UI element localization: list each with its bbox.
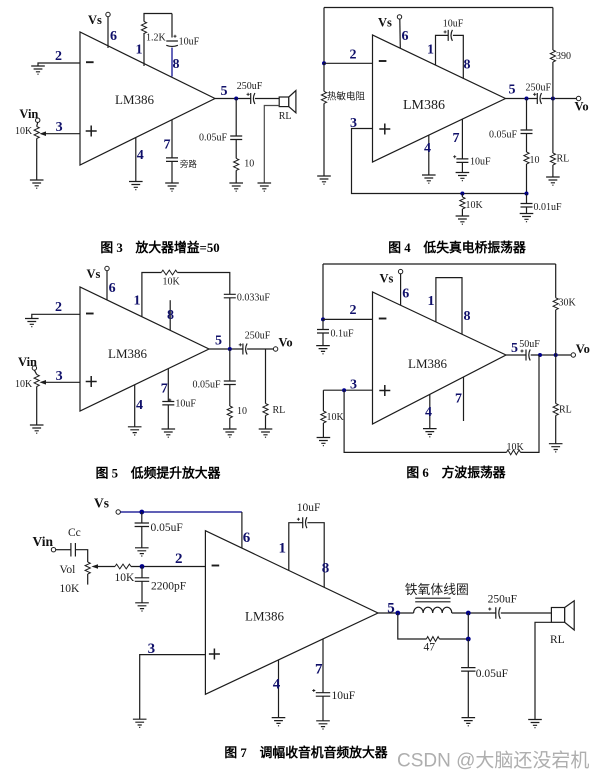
node Vin terminal [36,118,40,122]
wire 0.05uF to ground [141,527,143,548]
svg-text:6: 6 [243,530,251,546]
wire 0.1uF to ground [322,333,324,346]
svg-text:1: 1 [427,43,434,58]
svg-text:4: 4 [136,398,143,413]
resistor RL [263,404,268,416]
wire Vo node to RL [555,355,557,404]
capacitor 10uF pin1-pin8 [444,30,453,41]
svg-text:0.05uF: 0.05uF [476,668,508,680]
wire pin1 top [144,14,172,67]
op-amp U2 LM386 [373,35,506,162]
op-amp U5 non-inverting marker + [209,649,220,660]
wire left rail to thermistor [323,63,325,91]
op-amp U4 inverting marker - [379,318,387,320]
wire pin1 [142,273,161,317]
wire 0.05uF branch [467,639,469,668]
wire left 10K branch [322,390,324,411]
svg-text:0.01uF: 0.01uF [534,202,563,213]
svg-text:0.05uF: 0.05uF [489,130,518,141]
node 10K junction [460,192,464,196]
svg-text:250uF: 250uF [526,83,552,94]
svg-text:10: 10 [237,406,247,417]
svg-text:0.033uF: 0.033uF [237,293,271,304]
svg-text:1: 1 [134,294,141,309]
wire cap to 10 [229,385,231,407]
capacitor 0.05uF decoupling [135,523,149,527]
node Vs terminal [398,269,402,273]
wire 10K to pin2 [131,566,205,568]
potentiometer Vol 10K [85,562,90,574]
op-amp U4 non-inverting marker + [379,385,390,396]
ground (pot) [30,425,44,433]
wire 0.01uF branch [526,194,528,204]
capacitor 0.01uF [521,204,533,208]
svg-text:7: 7 [161,382,168,397]
wire pin1 [436,35,449,65]
capacitor 2200pF [135,578,149,582]
wire 2200pF to ground [141,581,143,603]
wire cap to ground [167,405,169,429]
svg-text:Vs: Vs [88,13,102,27]
capacitor 0.033uF [224,294,236,298]
svg-text:Vs: Vs [87,267,101,281]
svg-text:3: 3 [56,369,63,384]
node output junction [228,347,232,351]
ground (RL) [549,444,563,452]
ground (pin 7) [165,183,179,191]
node output junction [234,97,238,101]
node coil right junction [466,611,471,616]
wire pin4 [428,135,430,175]
wire pin7 [167,369,169,402]
svg-text:Vo: Vo [575,100,589,114]
wire RL to ground [555,416,557,444]
resistor 10K [321,411,326,423]
svg-text:30K: 30K [559,298,577,309]
node Vin terminal [51,548,55,552]
capacitor 50uF output [521,350,531,361]
node Vo terminal [273,347,277,351]
node pin2 junction [321,317,325,321]
resistor 10 [227,406,232,418]
ground (thermistor) [317,176,331,184]
ground (pot) [30,180,44,188]
inductor ferrite coil 铁氧体线圈 [414,607,452,613]
ground (2200pF) [135,603,149,611]
wire to 0.1uF [322,319,324,329]
svg-text:4: 4 [424,141,431,156]
node output junction [525,97,529,101]
svg-text:10K: 10K [466,200,484,211]
node Vo terminal [576,96,580,100]
svg-text:CSDN @大脑还没宕机: CSDN @大脑还没宕机 [397,750,589,772]
svg-text:图 7 调幅收音机音频放大器: 图 7 调幅收音机音频放大器 [224,745,387,760]
svg-text:10uF: 10uF [175,399,196,410]
wire 10 to bottom node [526,164,528,194]
capacitor 10uF pin1-pin8 [297,517,307,528]
svg-text:LM386: LM386 [245,609,285,624]
svg-text:0.05uF: 0.05uF [199,133,228,144]
wire speaker return [264,106,279,184]
svg-text:图 4 低失真电桥振荡器: 图 4 低失真电桥振荡器 [388,240,526,255]
inductor core bars [415,598,450,602]
svg-text:Vo: Vo [576,342,590,356]
wire cap to speaker [255,98,279,100]
svg-text:图 6 方波振荡器: 图 6 方波振荡器 [406,465,505,480]
svg-text:10uF: 10uF [297,502,321,514]
svg-text:47: 47 [424,642,436,654]
svg-text:0.1uF: 0.1uF [331,329,355,340]
svg-text:Vol: Vol [60,564,76,576]
wire pin6 [106,271,108,300]
svg-text:8: 8 [464,58,471,73]
wire 0.033uF to output node [229,298,231,349]
node Vs terminal [397,15,401,19]
capacitor 10uF pin7 [162,399,174,405]
wire output node to RL [552,99,554,154]
svg-text:图 3 放大器增益=50: 图 3 放大器增益=50 [100,240,219,255]
wire pin4 [429,394,431,428]
ground (pin 3) [133,719,147,727]
ground (speaker) [528,720,542,728]
svg-text:Vs: Vs [94,496,109,511]
wire thermistor to ground [323,103,325,176]
svg-text:4: 4 [425,405,432,420]
wire pin8 [307,523,324,588]
op-amp U1 inverting input marker - [86,61,94,63]
capacitor 250uF output coupling [247,93,255,104]
pin 8 stub [169,300,171,330]
resistor RL load [550,153,555,165]
svg-text:10uF: 10uF [443,19,464,30]
resistor 47 [426,637,439,642]
ground (pin 2) [31,66,45,74]
wire pin7 [322,639,324,693]
wire 47 to right node [439,613,468,639]
wire pin3 [323,389,372,391]
wire pin6 [400,274,402,306]
wire output [209,348,243,350]
wire bypass cap to ground [171,161,173,183]
op-amp U3 non-inverting marker + [86,376,97,387]
op-amp U1 non-inverting input marker + [86,126,97,137]
svg-text:Vs: Vs [378,16,392,30]
wire 10 to ground [229,418,231,429]
node coil left junction [395,611,400,616]
svg-text:4: 4 [137,148,144,163]
wire cap to Vo [531,354,571,356]
ground (pin 4) [422,175,436,183]
wire left rail upper [323,8,325,64]
ground (RL) [259,429,273,437]
wire 47 parallel branch [398,613,427,639]
capacitor 250uF output [239,343,247,354]
wire pot wiper to pin3 with arrow [44,133,80,135]
resistor 10K feedback [161,270,177,275]
capacitor 250uF output [488,607,500,619]
wire right rail upper [552,8,554,51]
svg-text:250uF: 250uF [237,81,263,92]
resistor 10K [460,197,465,209]
ground (pin 4) [423,429,437,437]
op-amp U1 LM386 [80,32,215,165]
wire 10K to ground [461,209,463,216]
node Vs terminal [106,12,110,16]
wire output [506,98,538,100]
node 0.01uF junction [525,192,529,196]
wire pin4 [134,385,136,427]
wire pin4 [278,660,280,718]
wire Vs rail (blue) [120,511,241,513]
svg-text:RL: RL [559,405,572,416]
wire RL to ground [265,416,267,430]
op-amp U3 inverting marker - [86,313,94,315]
svg-text:5: 5 [387,601,395,617]
pin 7 stub [463,377,465,421]
svg-text:图 5 低频提升放大器: 图 5 低频提升放大器 [96,466,221,481]
wire pin6 [399,19,402,48]
ground (pin 7) [162,429,176,437]
svg-text:390: 390 [556,51,571,62]
capacitor 0.05uF zobel [230,136,242,140]
wire cap to ground [322,696,324,721]
svg-text:3: 3 [148,641,156,657]
ground (pin 7) [456,173,470,181]
node 0.05uF junction [466,637,471,642]
svg-text:6: 6 [110,29,117,44]
wire pot bottom stub [87,574,89,585]
svg-text:LM386: LM386 [108,346,148,361]
wire output [378,612,414,614]
thermistor 热敏电阻 [321,91,326,103]
wire Vin to Cc [56,549,71,551]
op-amp U2 non-inverting marker + [379,124,390,135]
svg-text:RL: RL [550,634,565,646]
resistor 10K feedback [507,450,521,455]
svg-text:10K: 10K [115,572,136,584]
wire resistor to ground [235,170,237,183]
node feedback junction [538,353,542,357]
potentiometer 10K input [34,375,39,387]
op-amp U3 LM386 [80,287,209,411]
svg-text:4: 4 [273,677,281,693]
wire pin6 [107,17,109,48]
node 30K junction [554,353,558,357]
svg-text:8: 8 [322,561,330,577]
ground (zobel) [223,429,237,437]
svg-text:10uF: 10uF [332,690,356,702]
svg-text:2: 2 [350,48,357,63]
capacitor 0.05uF output [461,668,475,672]
wire RL to ground [552,165,554,177]
wire speaker return [535,622,551,719]
wire pin2 [323,318,373,320]
svg-text:Vin: Vin [19,107,38,121]
wire zobel branch [235,99,237,137]
svg-text:LM386: LM386 [403,98,445,113]
wire feedback bottom [344,390,506,452]
wire zobel branch [526,99,528,131]
node Vs terminal [105,266,109,270]
svg-text:6: 6 [402,29,409,44]
wire pin3 feedback loop [352,129,527,194]
ground (RL) [546,177,560,185]
svg-text:5: 5 [215,334,222,349]
svg-text:7: 7 [315,662,323,678]
svg-text:Vo: Vo [279,336,293,350]
ground (speaker) [258,183,272,191]
ground (10K) [456,216,470,224]
wire 30K to Vo node [555,310,557,355]
wire pin2 to ground [38,63,80,66]
wire pin7 [461,119,463,159]
wire pin2 to ground [32,314,80,318]
svg-text:2: 2 [55,49,62,64]
svg-text:5: 5 [511,341,518,356]
wire pot top [37,122,38,126]
speaker RL [551,601,574,630]
node 390 junction [551,97,555,101]
node 2200pF junction [140,564,145,569]
ground (pin 7) [316,721,330,729]
wire cap to 10 [526,134,528,153]
svg-text:RL: RL [273,405,286,416]
svg-text:10K: 10K [15,379,33,390]
ground (10K) [317,438,331,446]
resistor RL load [553,404,558,416]
svg-text:0.05uF: 0.05uF [151,522,183,534]
ground (0.01uF) [520,214,534,222]
wire coil to right node [452,612,496,614]
svg-text:1: 1 [279,541,287,557]
resistor 10K series [115,564,131,569]
svg-text:2: 2 [55,300,62,315]
wire pin8 lower [171,48,173,77]
svg-text:1.2K: 1.2K [146,33,167,44]
op-amp U5 LM386 [205,531,378,695]
ground (zobel) [229,183,243,191]
wire output [506,354,526,356]
speaker RL [279,91,296,113]
capacitor 10uF (pin8 bypass to pin1) [166,35,178,47]
capacitor 250uF output [533,93,541,104]
svg-text:5: 5 [509,83,516,98]
wire 0.05uF to ground [467,671,469,718]
wire pin1 [289,523,303,571]
svg-text:50uF: 50uF [519,339,540,350]
svg-text:10K: 10K [15,126,33,137]
capacitor bypass pin7 [166,158,178,162]
ground (pin 4) [128,427,142,435]
wire zobel branch [229,349,231,381]
svg-text:2200pF: 2200pF [151,581,186,593]
node Vo terminal [571,353,575,357]
wire pin6 [241,512,243,548]
svg-text:Vin: Vin [18,355,37,369]
wire pot bottom [36,139,38,181]
svg-text:8: 8 [173,57,180,72]
svg-text:Vin: Vin [33,534,54,549]
wire left rail [322,264,324,319]
wire top rail [323,263,556,265]
svg-text:10uF: 10uF [179,37,200,48]
resistor 30K [553,298,558,310]
wire 0.01uF to ground [526,207,528,214]
wire pin7 [171,120,173,158]
wire feedback right riser [521,355,540,452]
wire right rail upper [555,264,557,298]
ground (pin 4) [129,182,143,190]
node pin3 junction [342,388,346,392]
capacitor 10uF pin7 [453,155,468,162]
resistor 10 zobel [234,158,239,170]
svg-text:7: 7 [453,131,460,146]
resistor 390 [550,50,555,62]
ground (0.05uF out) [462,718,476,726]
wire 10K to ground [322,423,324,438]
wire output pin5 [215,98,251,100]
ground (0.1uF) [316,346,330,354]
svg-text:RL: RL [279,111,292,122]
node Vin terminal [32,366,36,370]
wire 390 to output node [552,62,554,99]
svg-text:LM386: LM386 [115,92,155,107]
svg-text:1: 1 [136,43,143,58]
node pin2 junction [322,61,326,65]
capacitor Cc coupling [71,543,76,557]
svg-text:10K: 10K [60,583,81,595]
potentiometer 10K (input) [34,127,39,139]
wire cap to Vo [247,348,273,350]
capacitor 0.05uF [224,381,236,385]
svg-text:8: 8 [167,308,174,323]
svg-text:10K: 10K [163,277,181,288]
svg-text:10: 10 [244,159,254,170]
svg-text:2: 2 [350,303,357,318]
svg-text:旁路: 旁路 [180,159,198,169]
wire to 0.05uF [141,512,143,523]
capacitor 0.05uF [521,130,533,134]
resistor 1.2K [141,22,146,34]
svg-text:250uF: 250uF [488,594,517,606]
wire cap to Vo [542,98,577,100]
svg-text:6: 6 [402,287,409,302]
svg-text:热敏电阻: 热敏电阻 [327,91,366,103]
svg-text:RL: RL [557,154,570,165]
svg-text:250uF: 250uF [245,331,271,342]
capacitor 0.1uF [317,330,329,334]
svg-text:8: 8 [464,309,471,324]
svg-text:6: 6 [109,281,116,296]
wire wiper to pin3 with arrow [44,381,80,383]
capacitor 10uF pin7 [312,689,330,696]
wire pin1 pin8 loop [436,278,462,335]
wire wiper arrow to 10K [96,566,115,568]
svg-text:10: 10 [530,155,540,166]
wire cap to ground [461,162,463,172]
svg-text:10uF: 10uF [470,157,491,168]
svg-text:10K: 10K [507,442,525,453]
ground (0.05uF) [135,548,149,556]
svg-text:7: 7 [164,138,171,153]
node 0.05uF junction [139,510,144,515]
svg-text:1: 1 [428,294,435,309]
op-amp U2 inverting marker - [379,60,387,62]
svg-text:0.05uF: 0.05uF [193,380,222,391]
svg-text:LM386: LM386 [408,356,448,371]
resistor 10 [524,152,529,164]
wire pot top [34,370,36,374]
